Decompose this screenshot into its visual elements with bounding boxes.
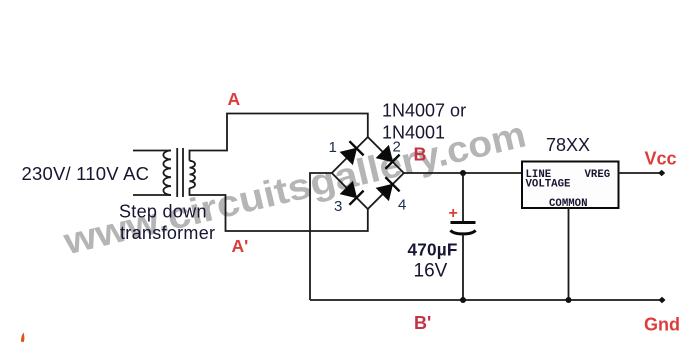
- svg-text:VREG: VREG: [585, 169, 611, 181]
- svg-text:Step down: Step down: [119, 202, 207, 222]
- wire primary bottom lead: [133, 194, 171, 196]
- svg-text:B': B': [414, 313, 431, 333]
- wire secondary bottom lead to node A': [190, 188, 368, 231]
- svg-text:1N4007 or: 1N4007 or: [382, 101, 466, 121]
- junction node B: [460, 170, 466, 176]
- svg-text:A': A': [232, 236, 249, 256]
- diode 3 (left vertex to bottom vertex): [341, 182, 364, 205]
- wire bridge right vertex to regulator input: [404, 172, 522, 174]
- Vcc terminal dot: [658, 170, 665, 176]
- Gnd terminal dot: [659, 297, 666, 303]
- bridge rectifier diamond: [332, 137, 404, 209]
- svg-text:470µF: 470µF: [408, 240, 458, 260]
- svg-text:1N4001: 1N4001: [382, 123, 445, 143]
- wire capacitor bottom lead: [462, 234, 464, 300]
- diode 4 (bottom vertex to right vertex): [377, 177, 400, 200]
- svg-text:VOLTAGE: VOLTAGE: [526, 179, 571, 191]
- diode 1 (left vertex to top vertex): [341, 141, 364, 164]
- svg-text:16V: 16V: [414, 261, 448, 282]
- wire capacitor top lead: [462, 173, 464, 222]
- wire regulator output to Vcc: [619, 172, 662, 174]
- capacitor C1 470uF polarized: [451, 223, 476, 234]
- wire regulator common to B' rail: [568, 208, 570, 300]
- svg-text:78XX: 78XX: [546, 135, 590, 155]
- stray red mark: [21, 333, 24, 343]
- wire bridge left vertex to B' rail: [310, 173, 332, 300]
- svg-text:B: B: [414, 145, 427, 165]
- transformer T1 primary winding: [163, 151, 171, 195]
- voltage regulator U1 78XX box: [522, 162, 619, 209]
- junction capacitor to B' rail: [460, 297, 466, 303]
- watermark: [59, 114, 530, 263]
- diode 2 (top vertex to right vertex): [377, 146, 400, 169]
- wire B' rail: [310, 299, 662, 301]
- wire secondary top lead to node A: [190, 114, 368, 161]
- svg-text:A: A: [228, 89, 241, 109]
- wire primary top lead: [133, 150, 171, 152]
- svg-text:3: 3: [334, 198, 342, 215]
- svg-text:+: +: [449, 205, 458, 222]
- transformer T1 secondary winding: [190, 161, 196, 188]
- svg-text:230V/ 110V AC: 230V/ 110V AC: [22, 163, 150, 184]
- svg-text:4: 4: [398, 197, 406, 214]
- transformer T1 core: [177, 148, 183, 197]
- junction regulator common to B' rail: [566, 297, 572, 303]
- svg-text:1: 1: [329, 139, 337, 156]
- svg-text:Gnd: Gnd: [644, 315, 680, 335]
- svg-text:Vcc: Vcc: [645, 149, 677, 169]
- svg-text:transformer: transformer: [120, 223, 215, 243]
